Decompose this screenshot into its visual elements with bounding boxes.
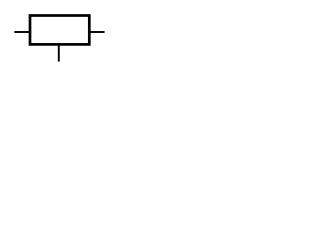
- wire bottom tap: [58, 44, 60, 61]
- wire right lead: [89, 31, 104, 33]
- wire left lead: [14, 31, 30, 33]
- resistor body: [30, 16, 89, 45]
